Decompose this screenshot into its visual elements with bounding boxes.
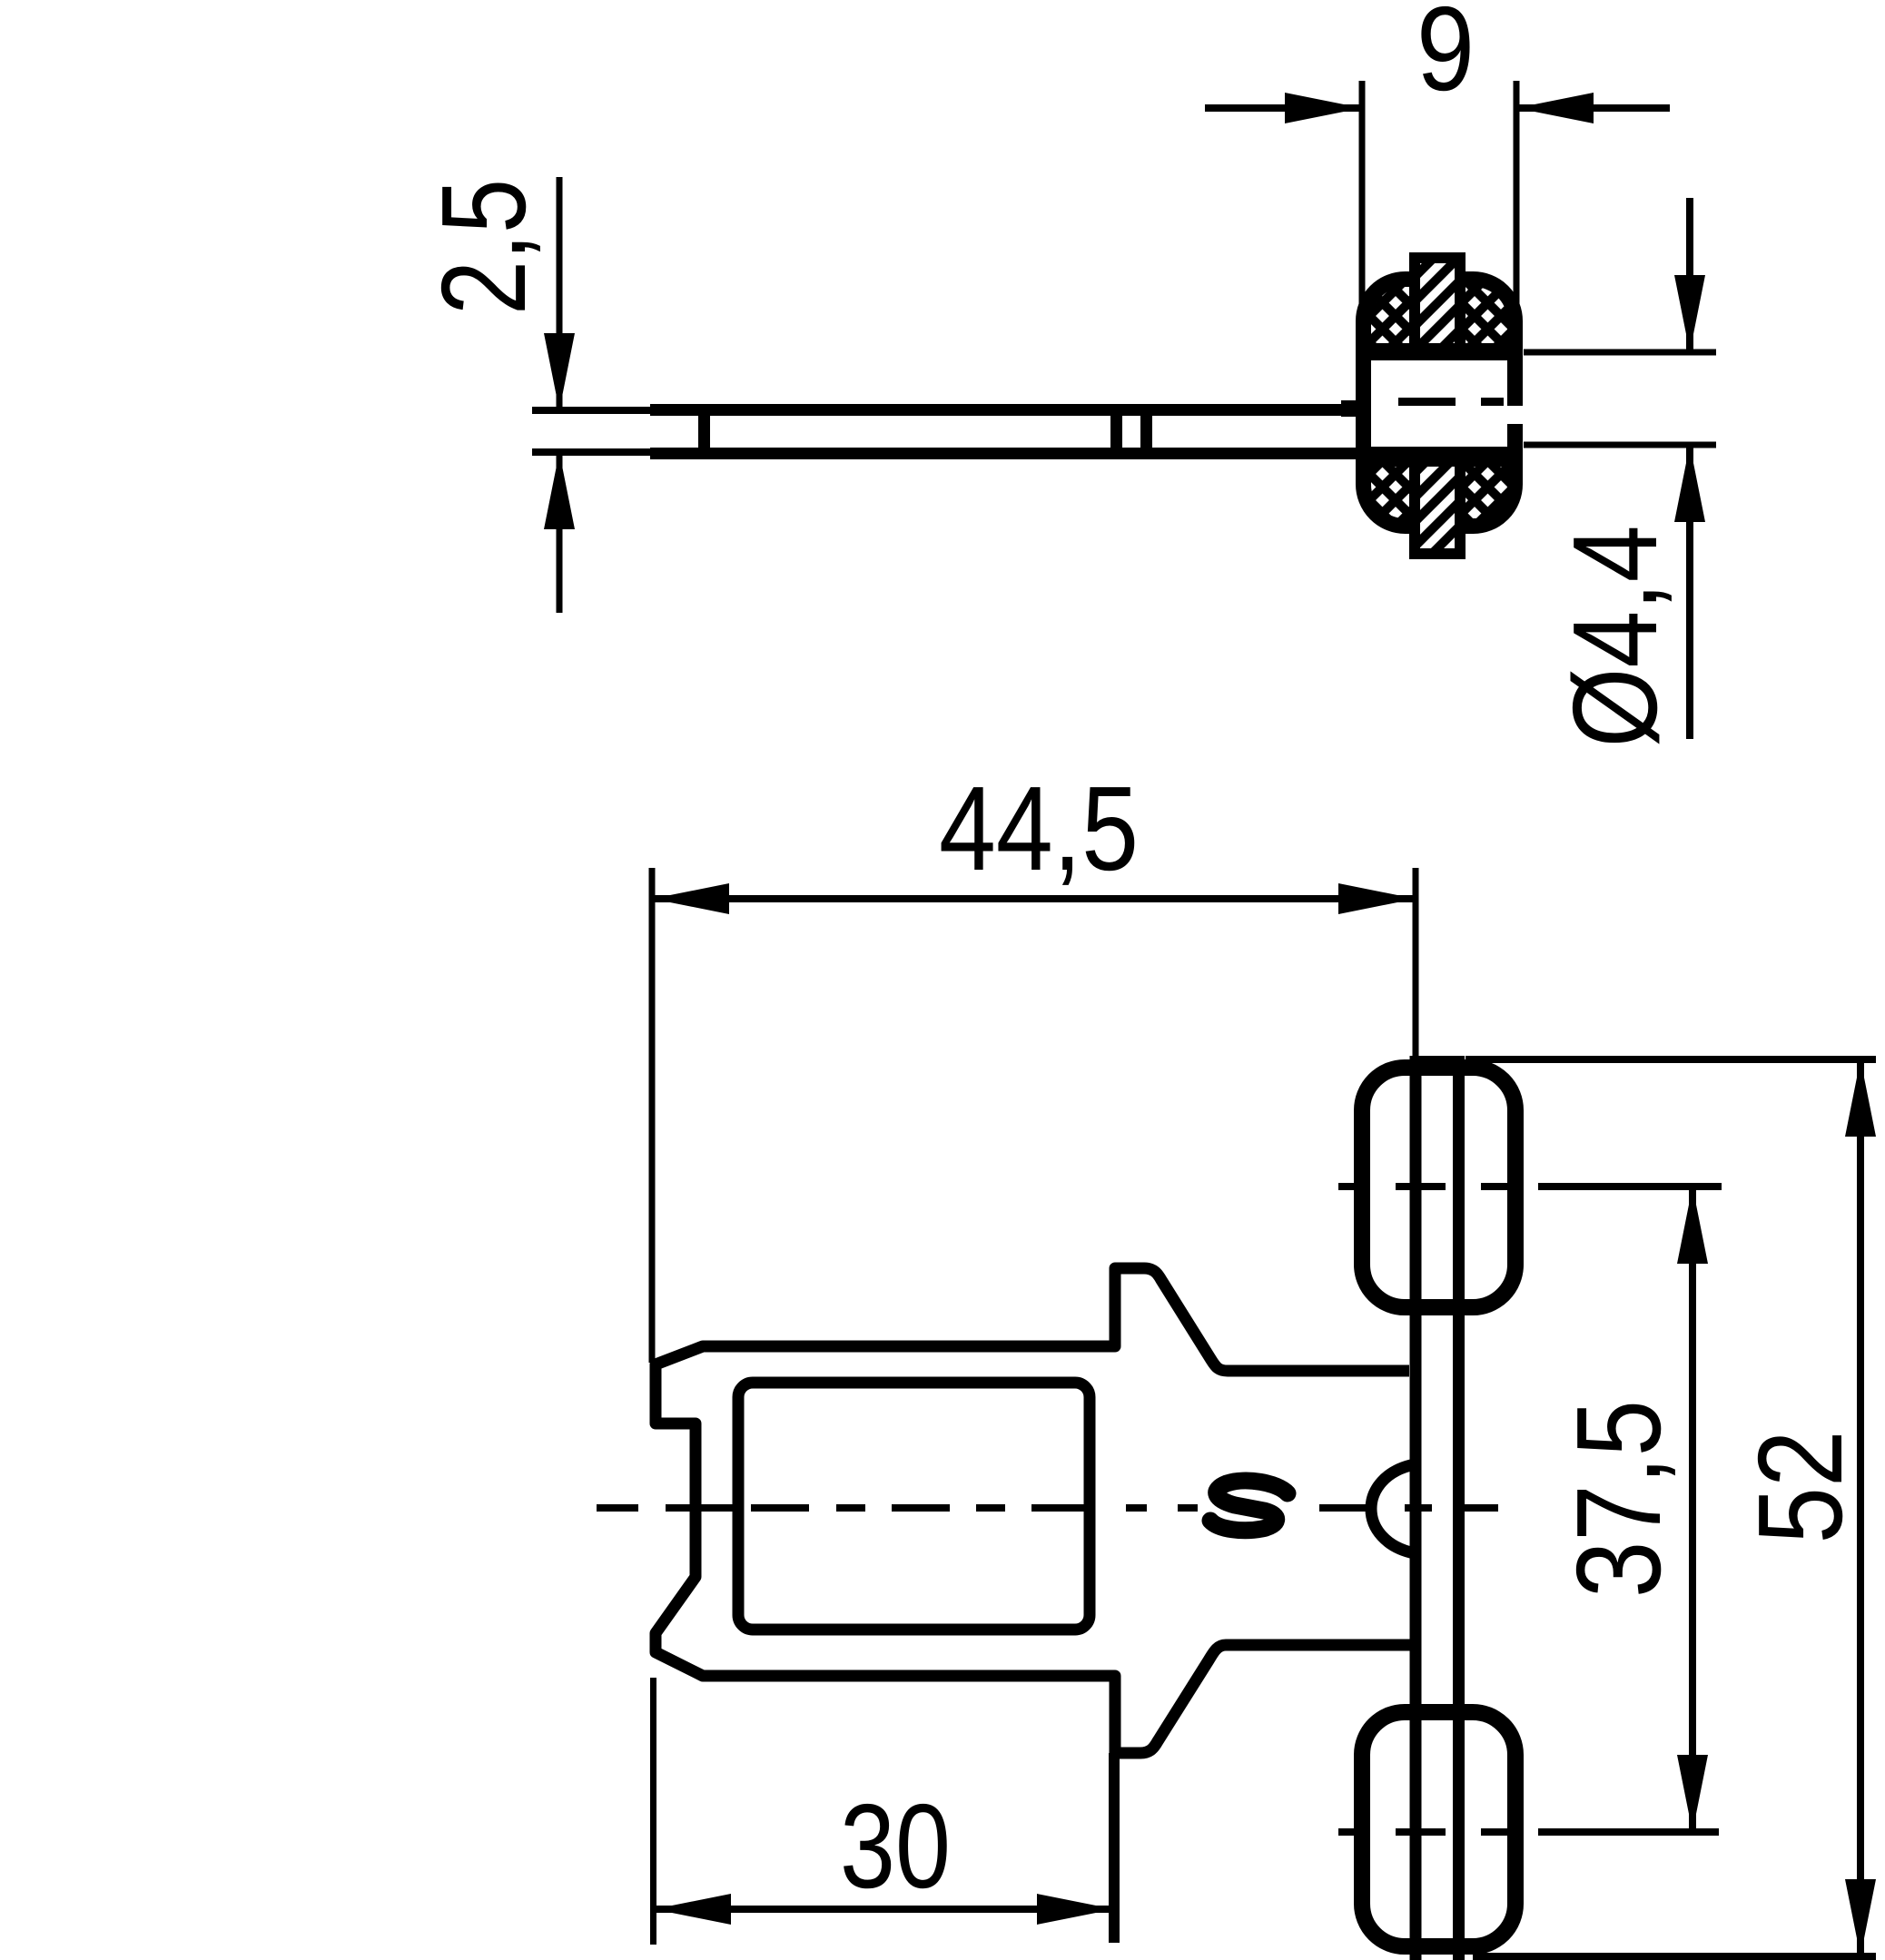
svg-text:9: 9 [1416, 0, 1475, 115]
svg-text:2,5: 2,5 [417, 179, 550, 315]
svg-text:30: 30 [840, 1779, 951, 1913]
svg-text:52: 52 [1733, 1431, 1867, 1544]
svg-text:37,5: 37,5 [1552, 1400, 1685, 1598]
svg-text:44,5: 44,5 [939, 762, 1139, 895]
svg-text:Ø4,4: Ø4,4 [1548, 526, 1682, 748]
